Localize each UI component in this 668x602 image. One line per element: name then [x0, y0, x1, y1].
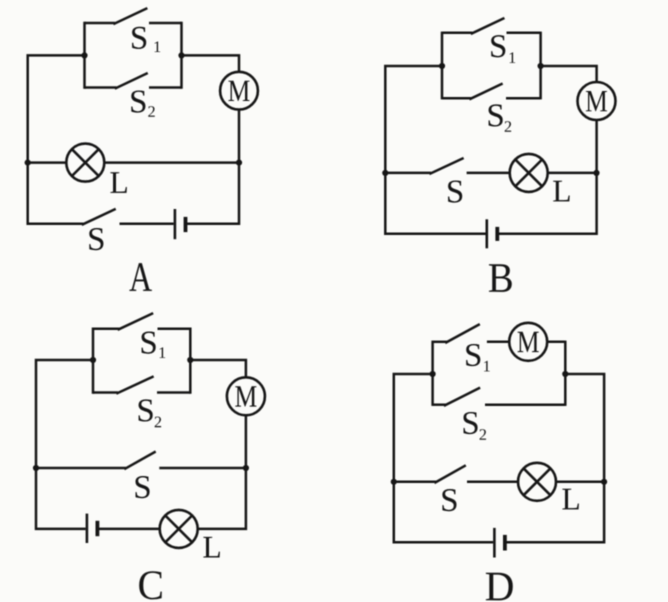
wire: D parallel-block right vertical: [564, 341, 567, 406]
lamp L (circuit D): [518, 463, 556, 501]
label L (circuit D): [562, 489, 578, 510]
wire: C middle row left segment: [36, 467, 126, 470]
wire: B bottom-right segment + right vertical below motor: [497, 120, 596, 234]
battery (circuit D) long plate: [493, 528, 496, 558]
switch S2 (circuit B): [442, 84, 541, 99]
battery (circuit C) long plate: [86, 514, 89, 543]
lamp L (circuit B): [510, 154, 548, 192]
wire: D middle row segment between switch and lamp: [467, 481, 518, 484]
wire: A bottom row middle segment: [120, 222, 174, 225]
wire: A junction to motor top: [182, 55, 240, 72]
wire: D segment motor to block right vertical: [547, 341, 565, 344]
motor M (circuit C): [227, 377, 265, 415]
node: D right junction dot: [562, 371, 568, 377]
label C (option letter): [139, 571, 162, 599]
wire: C parallel-block left vertical: [92, 328, 95, 394]
node: C right junction dot: [187, 357, 193, 363]
switch S (circuit A, bottom row): [83, 209, 115, 224]
label S (circuit D): [442, 489, 456, 511]
node: C middle-left junction dot: [33, 465, 39, 471]
node: D left junction dot: [430, 371, 436, 377]
node: D middle-left junction dot: [391, 479, 397, 485]
battery (circuit B) short thick plate: [495, 227, 499, 241]
wire: A middle row right segment: [104, 161, 239, 164]
lamp L (circuit A): [66, 144, 104, 182]
wire: C bottom row segment between battery and lamp: [97, 528, 159, 531]
wire: C top-left horizontal + left vertical + bottom-left segment: [36, 360, 93, 529]
wire: A top-left horizontal + left vertical + bottom-left segment: [28, 55, 85, 223]
label S1 (circuit A): [132, 27, 160, 52]
label S2 (circuit C): [139, 399, 162, 427]
wire: B parallel-block left vertical: [441, 32, 444, 100]
battery (circuit D) short thick plate: [503, 535, 507, 551]
label L (circuit A): [110, 172, 126, 193]
motor M (circuit D, in S1 branch): [509, 323, 547, 361]
node: A middle-left junction dot: [25, 160, 31, 166]
wire: B middle row right segment: [548, 172, 597, 175]
wire: A middle row left segment: [28, 161, 67, 164]
node: B right junction dot: [538, 63, 544, 69]
motor M (circuit A): [220, 72, 258, 110]
label S2 (circuit D): [463, 412, 486, 440]
label S (circuit C): [135, 476, 149, 498]
node: D middle-right junction dot: [601, 479, 607, 485]
lamp L (circuit C): [160, 510, 198, 548]
battery (circuit A) short thick plate: [184, 217, 188, 232]
label S1 (circuit B): [491, 35, 515, 63]
wire: D middle row right segment: [556, 481, 604, 484]
wire: D middle row left segment: [394, 481, 436, 484]
switch S (circuit C, middle row): [125, 452, 154, 469]
node: A left junction dot: [81, 52, 87, 58]
switch S (circuit B, middle row): [431, 159, 463, 174]
switch S2 (circuit D): [433, 388, 566, 405]
label S2 (circuit B): [489, 104, 512, 131]
label D (option letter): [486, 573, 513, 601]
wire: D junction to right vertical + bottom-right segment: [504, 374, 604, 542]
motor M (circuit B): [578, 82, 616, 120]
wire: B middle row segment between switch and lamp: [467, 172, 510, 175]
wire: C junction to motor top: [190, 360, 246, 377]
wire: D parallel-block left vertical: [431, 341, 434, 406]
node: A middle-right junction dot: [236, 160, 242, 166]
wire: B middle row left segment: [385, 172, 431, 175]
wire: C bottom-right segment + right vertical below motor: [198, 415, 246, 529]
battery (circuit A) long plate: [174, 209, 177, 239]
battery (circuit C) short thick plate: [96, 521, 100, 536]
label L (circuit B): [553, 181, 569, 202]
switch S2 (circuit C): [93, 377, 190, 393]
switch S1 (circuit B): [442, 19, 541, 34]
label S (circuit B): [448, 180, 462, 202]
label B (option letter): [489, 264, 512, 292]
switch S1 (circuit C): [93, 314, 190, 330]
wire: A parallel-block left vertical: [83, 22, 86, 89]
switch S (circuit D, middle row): [436, 466, 465, 483]
node: C middle-right junction dot: [243, 465, 249, 471]
label L (circuit C): [203, 537, 219, 558]
node: B middle-left junction dot: [382, 170, 388, 176]
wire: B top-left horizontal + left vertical + bottom-left segment: [385, 66, 485, 234]
wire: A parallel-block right vertical: [180, 22, 183, 89]
wire: B junction to motor top: [541, 66, 597, 82]
label S2 (circuit A): [131, 90, 154, 116]
wire: B parallel-block right vertical: [539, 32, 542, 100]
switch S2 (circuit A): [85, 74, 182, 89]
node: A right junction dot: [178, 52, 184, 58]
switch S1 (circuit A): [85, 9, 182, 24]
label A (option letter): [129, 263, 152, 291]
label S (circuit A): [89, 228, 103, 250]
node: C left junction dot: [90, 357, 96, 363]
wire: C parallel-block right vertical: [189, 328, 192, 394]
node: B middle-right junction dot: [593, 170, 599, 176]
battery (circuit B) long plate: [485, 219, 488, 248]
label S1 (circuit D): [466, 344, 490, 371]
wire: A bottom-right segment + right vertical below motor: [186, 109, 240, 223]
switch S1 (circuit D): [433, 325, 510, 343]
wire: C middle row right segment: [159, 467, 246, 470]
wire: D left horizontal + left vertical + bottom-left segment: [394, 374, 493, 542]
node: B left junction dot: [439, 63, 445, 69]
label S1 (circuit C): [142, 332, 166, 358]
